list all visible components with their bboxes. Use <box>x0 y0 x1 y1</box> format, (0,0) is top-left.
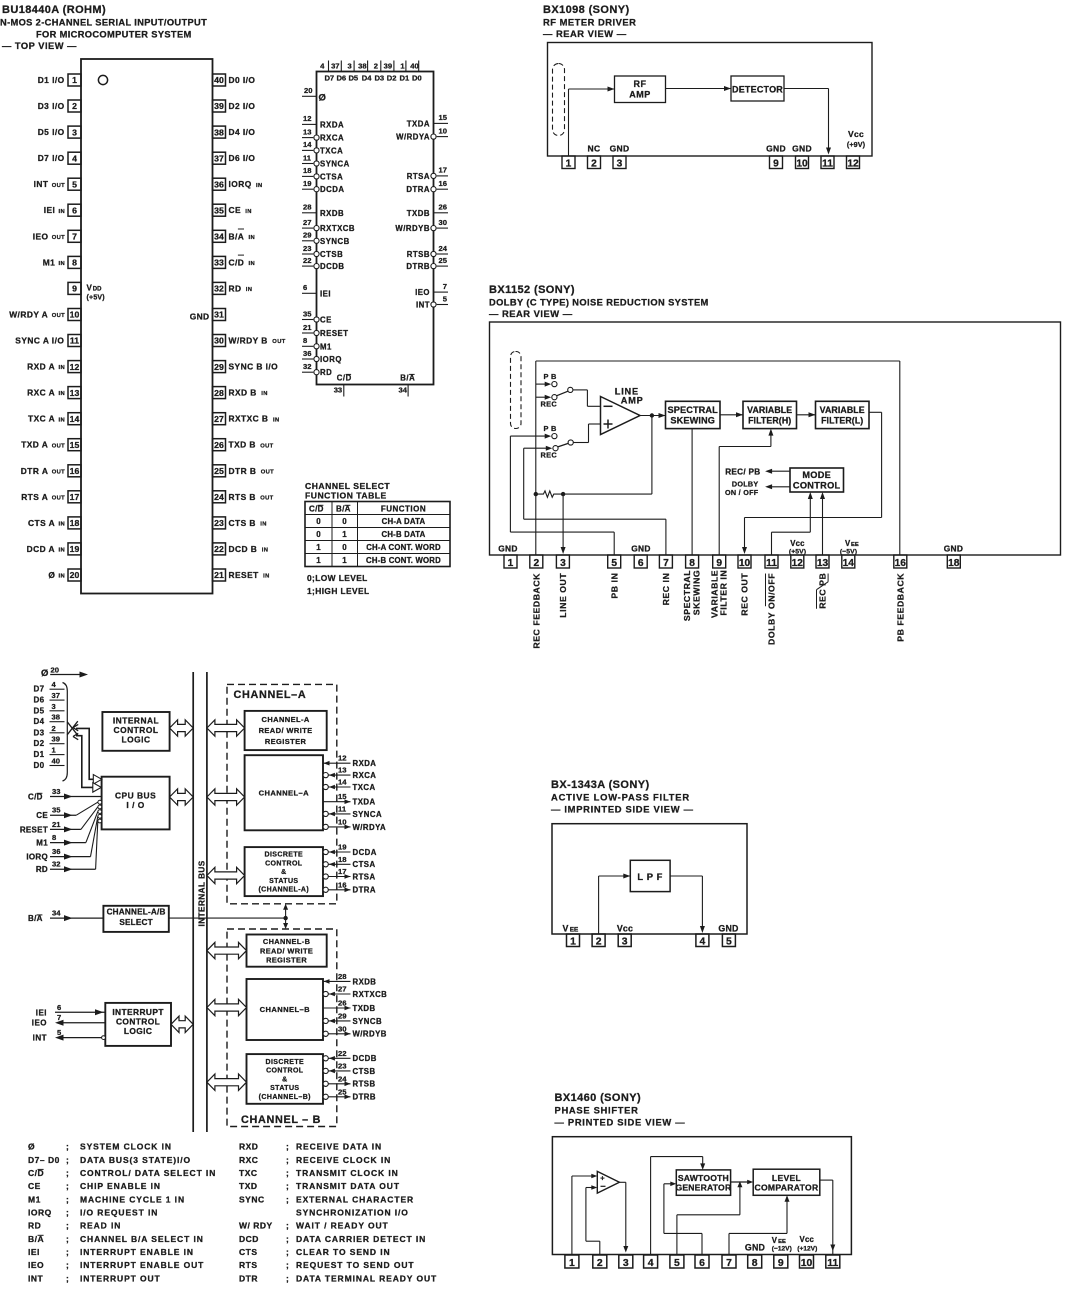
svg-text:TXD: TXD <box>239 1181 258 1191</box>
svg-text:4: 4 <box>700 936 706 947</box>
svg-text:GND: GND <box>766 144 786 154</box>
svg-text:29: 29 <box>338 1011 347 1020</box>
svg-text:GND: GND <box>745 1242 765 1252</box>
svg-text:RXDA: RXDA <box>320 120 344 129</box>
svg-text:26: 26 <box>439 203 447 212</box>
svg-text:;: ; <box>66 1155 69 1165</box>
svg-text:IN: IN <box>59 391 66 397</box>
svg-text:RTSB: RTSB <box>407 250 430 259</box>
svg-text:INT: INT <box>28 1273 44 1283</box>
svg-text:CE: CE <box>28 1181 41 1191</box>
svg-text:DCDA: DCDA <box>320 185 345 194</box>
svg-text:29: 29 <box>303 231 311 240</box>
svg-text:10: 10 <box>70 310 80 320</box>
svg-text:12: 12 <box>303 114 311 123</box>
svg-text:16: 16 <box>895 558 907 569</box>
svg-text:RXD: RXD <box>239 1142 258 1152</box>
svg-text:37: 37 <box>52 691 60 700</box>
svg-text:SYNCB: SYNCB <box>353 1017 383 1026</box>
svg-text:26: 26 <box>338 999 347 1008</box>
svg-text:12: 12 <box>792 558 804 569</box>
svg-text:16: 16 <box>439 179 447 188</box>
svg-text:(+12V): (+12V) <box>797 1246 817 1253</box>
svg-text:30: 30 <box>214 336 224 346</box>
svg-text:W/ RDY: W/ RDY <box>239 1221 273 1231</box>
svg-text:5: 5 <box>611 558 617 569</box>
svg-text:WAIT / READY OUT: WAIT / READY OUT <box>296 1221 389 1231</box>
svg-text:8: 8 <box>52 833 56 842</box>
svg-text:— REAR VIEW —: — REAR VIEW — <box>543 28 627 39</box>
svg-text:2: 2 <box>374 62 378 71</box>
svg-text:FOR MICROCOMPUTER SYSTEM: FOR MICROCOMPUTER SYSTEM <box>36 30 192 40</box>
svg-text:2: 2 <box>72 101 77 111</box>
svg-text:34: 34 <box>214 232 224 242</box>
svg-text:32: 32 <box>303 362 311 371</box>
svg-text:2: 2 <box>52 724 56 733</box>
svg-text:RESET: RESET <box>229 570 260 580</box>
svg-text:INTERRUPT ENABLE OUT: INTERRUPT ENABLE OUT <box>80 1260 204 1270</box>
svg-text:;: ; <box>286 1194 289 1204</box>
svg-text:36: 36 <box>214 179 224 189</box>
svg-text:19: 19 <box>70 544 80 554</box>
svg-text:VARIABLE: VARIABLE <box>820 405 865 415</box>
svg-text:LOGIC: LOGIC <box>124 1026 153 1036</box>
svg-text:CHANNEL-A/B: CHANNEL-A/B <box>107 908 166 917</box>
svg-text:P B: P B <box>544 372 557 381</box>
svg-text:3: 3 <box>52 702 56 711</box>
svg-text:8: 8 <box>72 258 77 268</box>
svg-text:CH-A DATA: CH-A DATA <box>382 517 426 526</box>
svg-text:RXTXCB: RXTXCB <box>353 990 388 999</box>
svg-text:21: 21 <box>214 570 224 580</box>
svg-text:DTRB: DTRB <box>353 1093 376 1102</box>
svg-text:OUT: OUT <box>52 235 65 241</box>
svg-text:STATUS: STATUS <box>269 878 298 885</box>
svg-text:DCDA: DCDA <box>353 848 377 857</box>
svg-text:PB IN: PB IN <box>609 573 619 599</box>
svg-text:9: 9 <box>773 158 779 169</box>
svg-text:SYSTEM CLOCK IN: SYSTEM CLOCK IN <box>80 1142 172 1152</box>
svg-text:GND: GND <box>792 144 812 154</box>
svg-text:PB FEEDBACK: PB FEEDBACK <box>895 573 905 642</box>
svg-text:37: 37 <box>331 62 339 71</box>
svg-text:CE: CE <box>229 205 242 215</box>
svg-text:REGISTER: REGISTER <box>265 737 307 746</box>
svg-text:SYNC: SYNC <box>239 1194 265 1204</box>
svg-text:24: 24 <box>439 244 448 253</box>
svg-text:CH-B CONT. WORD: CH-B CONT. WORD <box>366 556 441 565</box>
svg-text:N-MOS 2-CHANNEL SERIAL INPUT/O: N-MOS 2-CHANNEL SERIAL INPUT/OUTPUT <box>0 18 207 28</box>
svg-text:4: 4 <box>72 153 77 163</box>
svg-text:INTERRUPT: INTERRUPT <box>112 1007 164 1017</box>
svg-text:39: 39 <box>52 735 60 744</box>
svg-text:CTS: CTS <box>239 1247 258 1257</box>
svg-text:AMP: AMP <box>629 90 651 100</box>
svg-text:CH-B DATA: CH-B DATA <box>382 530 426 539</box>
svg-text:IN: IN <box>273 417 280 423</box>
svg-text:CONTROL/ DATA SELECT IN: CONTROL/ DATA SELECT IN <box>80 1168 216 1178</box>
svg-text:11: 11 <box>827 1258 838 1269</box>
svg-text:— REAR VIEW —: — REAR VIEW — <box>489 308 573 319</box>
svg-text:IN: IN <box>59 209 66 215</box>
svg-text:W/RDY A: W/RDY A <box>9 310 48 320</box>
svg-text:TRANSMIT CLOCK IN: TRANSMIT CLOCK IN <box>296 1168 399 1178</box>
svg-text:V: V <box>772 1236 778 1245</box>
svg-text:DOLBY ON/OFF: DOLBY ON/OFF <box>767 573 777 645</box>
svg-text:LEVEL: LEVEL <box>772 1173 801 1183</box>
svg-text:6: 6 <box>638 558 644 569</box>
svg-text:M1: M1 <box>36 839 48 848</box>
svg-text:D2 I/O: D2 I/O <box>229 101 256 111</box>
svg-text:1: 1 <box>316 543 321 552</box>
svg-text:DCD B: DCD B <box>229 544 258 554</box>
svg-text:35: 35 <box>214 205 224 215</box>
svg-text:C/D: C/D <box>28 793 43 802</box>
svg-text:FILTER(H): FILTER(H) <box>748 415 791 425</box>
svg-text:D5 I/O: D5 I/O <box>38 127 65 137</box>
svg-text:20: 20 <box>304 86 312 95</box>
svg-text:DATA CARRIER DETECT IN: DATA CARRIER DETECT IN <box>296 1234 426 1244</box>
svg-text:RECEIVE CLOCK IN: RECEIVE CLOCK IN <box>296 1155 391 1165</box>
svg-text:28: 28 <box>338 972 347 981</box>
svg-text:38: 38 <box>358 62 366 71</box>
svg-text:D7: D7 <box>34 685 45 694</box>
svg-text:21: 21 <box>52 820 61 829</box>
svg-text:8: 8 <box>689 558 695 569</box>
svg-text:IN: IN <box>59 548 66 554</box>
svg-text:RESET: RESET <box>320 329 349 338</box>
svg-text:1: 1 <box>569 1258 575 1269</box>
svg-text:B/A: B/A <box>28 914 43 923</box>
svg-text:RD: RD <box>36 865 48 874</box>
svg-text:IORQ: IORQ <box>320 355 342 364</box>
svg-text:TRANSMIT DATA OUT: TRANSMIT DATA OUT <box>296 1181 400 1191</box>
svg-text:10: 10 <box>801 1258 813 1269</box>
svg-text:CTS B: CTS B <box>229 518 256 528</box>
svg-text:37: 37 <box>214 153 224 163</box>
svg-text:IEO: IEO <box>415 288 430 297</box>
svg-text:INTERNAL BUS: INTERNAL BUS <box>197 860 206 926</box>
svg-text:7: 7 <box>726 1258 732 1269</box>
svg-text:40: 40 <box>410 62 418 71</box>
svg-text:RESET: RESET <box>20 825 48 834</box>
svg-text:RXTXC B: RXTXC B <box>229 414 269 424</box>
svg-text:5: 5 <box>72 179 77 189</box>
svg-text:25: 25 <box>439 256 448 265</box>
svg-text:34: 34 <box>52 909 61 918</box>
svg-text:;: ; <box>66 1273 69 1283</box>
svg-text:RD: RD <box>320 368 332 377</box>
svg-text:CHANNEL–A: CHANNEL–A <box>259 789 310 798</box>
svg-text:38: 38 <box>52 713 60 722</box>
svg-text:DOLBY: DOLBY <box>732 479 759 488</box>
svg-text:1: 1 <box>570 936 576 947</box>
svg-text:3: 3 <box>622 936 628 947</box>
svg-text:M1: M1 <box>28 1194 41 1204</box>
svg-text:;: ; <box>286 1221 289 1231</box>
svg-text:RF METER DRIVER: RF METER DRIVER <box>543 17 636 28</box>
svg-text:P B: P B <box>544 424 557 433</box>
svg-text:;: ; <box>286 1181 289 1191</box>
svg-text:READ/ WRITE: READ/ WRITE <box>259 726 313 735</box>
svg-text:TXD A: TXD A <box>21 440 48 450</box>
svg-text:D5: D5 <box>34 706 45 715</box>
svg-text:W/RDYB: W/RDYB <box>353 1030 387 1039</box>
svg-text:IN: IN <box>59 261 66 267</box>
svg-text:M1: M1 <box>320 342 332 351</box>
svg-text:C/D: C/D <box>309 505 324 514</box>
svg-text:IN: IN <box>59 417 66 423</box>
svg-text:SPECTRAL: SPECTRAL <box>668 405 719 415</box>
svg-text:REC OUT: REC OUT <box>740 573 750 616</box>
svg-text:Vcc: Vcc <box>800 1235 815 1244</box>
svg-text:14: 14 <box>338 778 347 787</box>
svg-text:INT: INT <box>34 179 49 189</box>
svg-text:OUT: OUT <box>52 313 65 319</box>
svg-text:;: ; <box>66 1142 69 1152</box>
svg-text:20: 20 <box>51 666 59 675</box>
svg-text:RXDA: RXDA <box>353 759 377 768</box>
svg-text:3: 3 <box>623 1258 629 1269</box>
svg-text:9: 9 <box>72 284 77 294</box>
svg-text:13: 13 <box>70 388 80 398</box>
svg-text:OUT: OUT <box>261 469 274 475</box>
svg-text:IN: IN <box>246 287 253 293</box>
svg-text:14: 14 <box>303 140 312 149</box>
svg-text:22: 22 <box>303 256 311 265</box>
svg-text:IN: IN <box>256 183 263 189</box>
svg-text:RXTXCB: RXTXCB <box>320 224 355 233</box>
svg-text:DOLBY (C TYPE) NOISE REDUCTION: DOLBY (C TYPE) NOISE REDUCTION SYSTEM <box>489 298 709 308</box>
svg-text:NC: NC <box>588 144 601 154</box>
svg-text:1: 1 <box>566 158 572 169</box>
svg-text:BX1098 (SONY): BX1098 (SONY) <box>543 4 630 16</box>
svg-text:Ø: Ø <box>319 93 326 104</box>
svg-text:CONTROL: CONTROL <box>116 1016 160 1026</box>
svg-text:M1: M1 <box>43 257 56 267</box>
svg-text:24: 24 <box>214 492 224 502</box>
svg-text:TXDB: TXDB <box>353 1004 376 1013</box>
svg-text:13: 13 <box>817 558 829 569</box>
svg-text:28: 28 <box>303 203 311 212</box>
svg-text:8: 8 <box>303 336 307 345</box>
svg-text:23: 23 <box>338 1061 347 1070</box>
svg-text:IORQ: IORQ <box>28 1208 52 1218</box>
svg-text:IEI: IEI <box>320 289 331 298</box>
svg-text:REGISTER: REGISTER <box>266 956 307 965</box>
svg-text:3: 3 <box>617 158 623 169</box>
svg-text:2: 2 <box>591 158 597 169</box>
svg-text:39: 39 <box>214 101 224 111</box>
svg-text:CH-A CONT. WORD: CH-A CONT. WORD <box>366 543 441 552</box>
svg-text:5: 5 <box>726 936 732 947</box>
svg-text:18: 18 <box>338 855 347 864</box>
svg-text:;: ; <box>66 1181 69 1191</box>
svg-text:IN: IN <box>249 261 256 267</box>
svg-text:CHANNEL-B: CHANNEL-B <box>263 937 311 946</box>
svg-text:PHASE SHIFTER: PHASE SHIFTER <box>555 1105 639 1116</box>
svg-text:TXDB: TXDB <box>407 209 430 218</box>
svg-text:INTERNAL: INTERNAL <box>113 715 159 725</box>
svg-text:CONTROL: CONTROL <box>266 1068 304 1075</box>
svg-text:VARIABLE: VARIABLE <box>747 405 792 415</box>
svg-text:DTRA: DTRA <box>353 886 376 895</box>
svg-text:IEI: IEI <box>44 205 56 215</box>
svg-text:INT: INT <box>33 1034 47 1043</box>
svg-text:+: + <box>600 1173 605 1182</box>
svg-text:DCD A: DCD A <box>27 544 55 554</box>
svg-text:19: 19 <box>303 179 311 188</box>
svg-text:IEO: IEO <box>28 1260 44 1270</box>
svg-text:33: 33 <box>334 386 342 395</box>
svg-text:SYNCA: SYNCA <box>320 160 350 169</box>
svg-text:31: 31 <box>214 310 224 320</box>
svg-text:RD: RD <box>28 1221 41 1231</box>
svg-text:27: 27 <box>303 218 311 227</box>
svg-text:12: 12 <box>847 158 859 169</box>
svg-text:;: ; <box>286 1168 289 1178</box>
svg-text:(CHANNEL–B): (CHANNEL–B) <box>259 1094 311 1101</box>
svg-text:11: 11 <box>303 153 312 162</box>
svg-text:INT: INT <box>416 301 430 310</box>
svg-text:36: 36 <box>52 847 60 856</box>
svg-text:11: 11 <box>766 558 777 569</box>
svg-text:(CHANNEL-A): (CHANNEL-A) <box>258 887 309 894</box>
svg-text:Vcc: Vcc <box>617 923 633 933</box>
svg-text:7: 7 <box>72 232 77 242</box>
svg-text:GND: GND <box>498 544 518 554</box>
svg-text:2: 2 <box>596 936 602 947</box>
svg-text:;: ; <box>286 1142 289 1152</box>
svg-text:RXC A: RXC A <box>27 388 55 398</box>
svg-text:29: 29 <box>214 362 224 372</box>
svg-text:IN: IN <box>263 574 270 580</box>
svg-text:ACTIVE LOW-PASS FILTER: ACTIVE LOW-PASS FILTER <box>551 792 690 803</box>
svg-text:RTSB: RTSB <box>353 1080 376 1089</box>
svg-text:19: 19 <box>338 843 347 852</box>
svg-text:EE: EE <box>851 542 859 548</box>
svg-text:SKEWING: SKEWING <box>691 570 701 615</box>
svg-text:27: 27 <box>338 985 347 994</box>
svg-text:FILTER(L): FILTER(L) <box>821 415 863 425</box>
svg-text:32: 32 <box>52 860 60 869</box>
svg-text:25: 25 <box>214 466 224 476</box>
svg-text:D6: D6 <box>336 74 346 83</box>
svg-text:OUT: OUT <box>52 495 65 501</box>
svg-text:;: ; <box>286 1260 289 1270</box>
svg-text:16: 16 <box>338 880 347 889</box>
svg-text:CTS A: CTS A <box>28 518 55 528</box>
svg-text:IEO: IEO <box>33 231 49 241</box>
svg-text:Ø: Ø <box>41 668 48 679</box>
svg-text:15: 15 <box>338 792 347 801</box>
svg-text:3: 3 <box>347 62 351 71</box>
svg-text:LINE OUT: LINE OUT <box>558 573 568 618</box>
svg-text:OUT: OUT <box>52 469 65 475</box>
svg-text:C/D: C/D <box>229 257 245 267</box>
svg-text:INTERRUPT OUT: INTERRUPT OUT <box>80 1273 161 1283</box>
svg-text:D1: D1 <box>400 74 410 83</box>
svg-text:D4 I/O: D4 I/O <box>229 127 256 137</box>
svg-text:OUT: OUT <box>260 443 273 449</box>
svg-text:10: 10 <box>796 158 808 169</box>
svg-text:D2: D2 <box>387 74 397 83</box>
svg-text:22: 22 <box>338 1049 347 1058</box>
svg-text:TXC: TXC <box>239 1168 258 1178</box>
svg-text:I / O: I / O <box>126 800 144 810</box>
svg-text:CONTROL: CONTROL <box>265 860 303 867</box>
svg-text:FUNCTION TABLE: FUNCTION TABLE <box>305 491 387 501</box>
svg-text:REC IN: REC IN <box>661 573 671 606</box>
svg-text:D3: D3 <box>34 728 45 737</box>
svg-text:18: 18 <box>303 166 311 175</box>
svg-text:— TOP VIEW —: — TOP VIEW — <box>2 41 77 51</box>
svg-text:;: ; <box>286 1234 289 1244</box>
svg-text:32: 32 <box>214 284 224 294</box>
svg-text:RTS B: RTS B <box>229 492 256 502</box>
svg-text:CHANNEL–A: CHANNEL–A <box>234 689 307 701</box>
svg-text:SYNCB: SYNCB <box>320 237 350 246</box>
svg-text:D2: D2 <box>34 739 45 748</box>
svg-text:18: 18 <box>70 518 80 528</box>
svg-text:READ IN: READ IN <box>80 1221 121 1231</box>
svg-text:EE: EE <box>570 926 579 933</box>
svg-text:TXDA: TXDA <box>407 119 430 128</box>
svg-text:REC FEEDBACK: REC FEEDBACK <box>531 573 541 649</box>
svg-text:DISCRETE: DISCRETE <box>266 1059 305 1066</box>
svg-text:SYNCHRONIZATION I/O: SYNCHRONIZATION I/O <box>296 1208 409 1218</box>
svg-text:RXD A: RXD A <box>27 362 55 372</box>
svg-text:IORQ: IORQ <box>229 179 252 189</box>
svg-text:GENERATOR: GENERATOR <box>675 1183 732 1193</box>
svg-text:TXD B: TXD B <box>229 440 256 450</box>
svg-text:Ø: Ø <box>48 570 55 580</box>
svg-text:D5: D5 <box>348 74 358 83</box>
svg-text:2: 2 <box>597 1258 603 1269</box>
svg-text:13: 13 <box>338 766 347 775</box>
svg-text:0;LOW LEVEL: 0;LOW LEVEL <box>307 573 368 583</box>
svg-text:;: ; <box>66 1221 69 1231</box>
svg-text:V: V <box>87 284 93 293</box>
svg-text:20: 20 <box>70 570 80 580</box>
svg-text:;: ; <box>66 1208 69 1218</box>
svg-text:5: 5 <box>674 1258 680 1269</box>
svg-text:SKEWING: SKEWING <box>670 415 715 425</box>
svg-text:REC: REC <box>541 450 558 459</box>
svg-text:— IMPRINTED SIDE VIEW —: — IMPRINTED SIDE VIEW — <box>551 804 694 815</box>
svg-text:40: 40 <box>214 75 224 85</box>
svg-text:GND: GND <box>190 312 210 322</box>
svg-text:DCD: DCD <box>239 1234 259 1244</box>
svg-text:(+5V): (+5V) <box>789 549 806 556</box>
svg-text:26: 26 <box>214 440 224 450</box>
svg-text:IN: IN <box>261 391 268 397</box>
svg-text:IORQ: IORQ <box>26 853 48 862</box>
svg-text:SYNC A I/O: SYNC A I/O <box>15 336 64 346</box>
svg-text:36: 36 <box>303 349 311 358</box>
svg-text:33: 33 <box>52 787 60 796</box>
svg-text:IEO: IEO <box>32 1019 47 1028</box>
svg-text:D7– D0: D7– D0 <box>28 1155 60 1165</box>
svg-text:CONTROL: CONTROL <box>793 481 841 491</box>
svg-text:LOGIC: LOGIC <box>121 734 150 744</box>
svg-text:;: ; <box>66 1194 69 1204</box>
svg-text:TXCA: TXCA <box>353 783 376 792</box>
svg-text:W/RDYA: W/RDYA <box>353 823 387 832</box>
svg-text:&: & <box>281 869 286 876</box>
svg-text:SYNCA: SYNCA <box>353 810 383 819</box>
svg-text:TXCA: TXCA <box>320 146 343 155</box>
